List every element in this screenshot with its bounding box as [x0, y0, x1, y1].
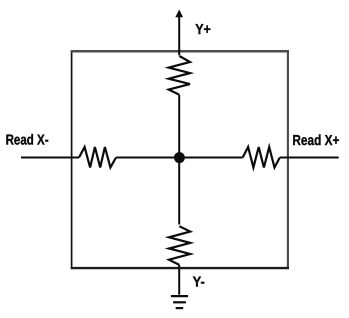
svg-text:Read X-: Read X- [6, 133, 49, 149]
svg-text:Y+: Y+ [195, 22, 211, 38]
svg-text:Y-: Y- [193, 275, 205, 291]
svg-text:Read X+: Read X+ [292, 133, 339, 149]
